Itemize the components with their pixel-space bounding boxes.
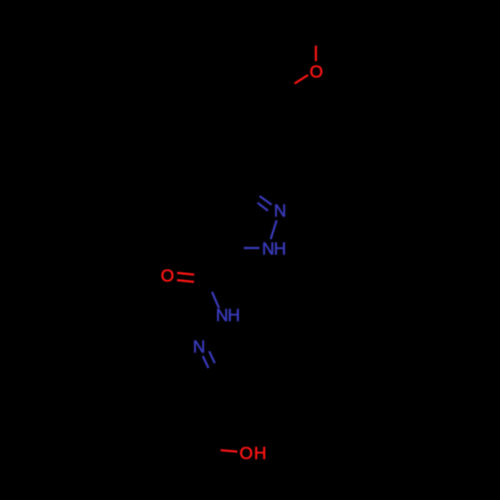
svg-text:NH: NH [216,305,240,325]
svg-text:N: N [274,201,286,221]
svg-text:N: N [193,337,205,357]
svg-text:O: O [310,61,323,81]
svg-text:O: O [161,265,174,285]
svg-text:NH: NH [262,239,286,259]
svg-text:OH: OH [240,443,268,463]
